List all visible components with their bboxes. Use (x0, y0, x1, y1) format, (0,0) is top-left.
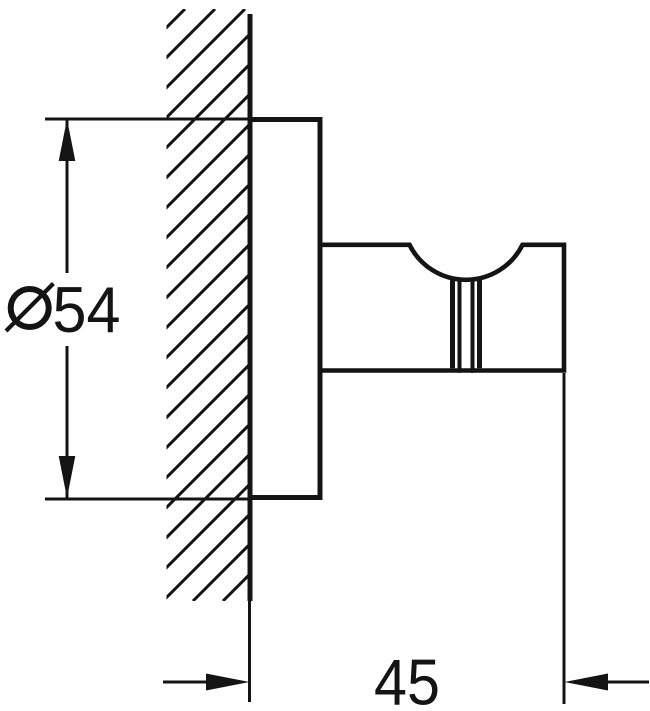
arrowhead up (59, 119, 76, 161)
arrowhead pointing left (565, 674, 609, 691)
arrowhead pointing right (206, 674, 250, 691)
extension line right (45 dimension right) (563, 373, 566, 704)
svg-text:45: 45 (374, 646, 440, 711)
hook neck outer left silhouette line (450, 278, 455, 369)
dimension line vertical lower segment (66, 346, 69, 499)
wall face line (248, 14, 253, 601)
extension line bottom (diameter dimension) (45, 498, 250, 501)
hook neck inner left silhouette line (458, 279, 462, 373)
hook neck outer right silhouette line (477, 278, 482, 369)
label diameter 54: diameter symbol circle (11, 289, 49, 327)
label diameter 54: diameter symbol slash (6, 284, 53, 332)
dimension tail right (607, 681, 649, 684)
hook outline (320, 245, 564, 371)
arrowhead down (59, 456, 76, 498)
wall plate outline (250, 120, 320, 498)
svg-text:54: 54 (53, 273, 121, 346)
extension line top (diameter dimension) (45, 118, 250, 121)
dimension line vertical upper segment (66, 119, 69, 273)
extension line below wall (45 dimension left) (248, 601, 251, 702)
hook neck inner right silhouette line (471, 279, 475, 373)
dimension tail left (163, 681, 208, 684)
